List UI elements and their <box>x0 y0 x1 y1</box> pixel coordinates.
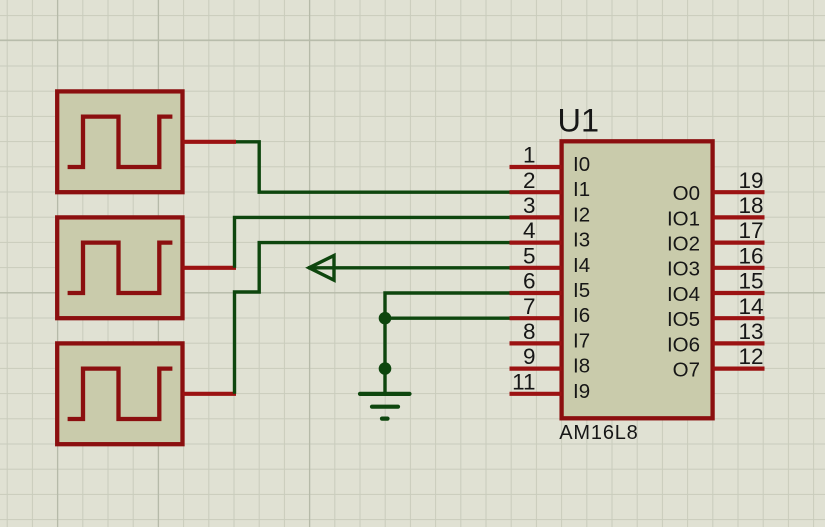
svg-text:18: 18 <box>738 193 763 218</box>
svg-text:O7: O7 <box>673 359 700 382</box>
svg-text:2: 2 <box>523 168 536 193</box>
pin 6 (I5) <box>510 269 591 302</box>
svg-text:7: 7 <box>523 294 536 319</box>
pin 4 (I3) <box>510 218 591 251</box>
svg-text:8: 8 <box>523 319 536 344</box>
wire ground net to pin I5 <box>385 293 510 394</box>
svg-text:AM16L8: AM16L8 <box>559 422 638 444</box>
svg-text:U1: U1 <box>558 103 600 139</box>
pin 15 (IO4) <box>667 269 765 306</box>
svg-text:I9: I9 <box>573 380 590 403</box>
svg-text:16: 16 <box>738 243 763 268</box>
svg-text:14: 14 <box>738 294 763 319</box>
terminal arrow on I4 net <box>309 256 334 281</box>
clock generator V2 (middle pulse source) <box>57 217 182 318</box>
svg-text:IO1: IO1 <box>667 207 700 230</box>
svg-text:O0: O0 <box>673 182 700 205</box>
svg-text:9: 9 <box>523 344 536 369</box>
svg-text:12: 12 <box>738 344 763 369</box>
pin 19 (O0) <box>673 168 765 205</box>
wire V1 to pin I1 <box>236 142 510 192</box>
pin of V2 <box>183 266 237 270</box>
pin 3 (I2) <box>510 193 591 226</box>
pin 12 (O7) <box>673 344 765 381</box>
pin 13 (IO6) <box>667 319 765 356</box>
IC U1 body <box>562 141 713 418</box>
svg-text:IO2: IO2 <box>667 233 700 256</box>
ground symbol <box>360 394 410 419</box>
svg-text:IO6: IO6 <box>667 333 700 356</box>
pin 9 (I8) <box>510 344 591 377</box>
pin 17 (IO2) <box>667 218 765 255</box>
wire V2 to pin I2 <box>235 217 510 267</box>
svg-text:IO5: IO5 <box>667 308 700 331</box>
pin 8 (I7) <box>510 319 591 352</box>
svg-text:I6: I6 <box>573 304 590 327</box>
svg-text:1: 1 <box>523 143 536 168</box>
svg-text:11: 11 <box>512 369 535 394</box>
junction dot at ground terminal <box>379 362 392 375</box>
pin 14 (IO5) <box>667 294 765 331</box>
pin of V3 <box>183 392 237 396</box>
pin 11 (I9) <box>510 369 591 402</box>
junction dot at I6 branch <box>379 312 392 325</box>
svg-text:I5: I5 <box>573 279 590 302</box>
svg-text:4: 4 <box>523 218 536 243</box>
svg-text:15: 15 <box>738 269 763 294</box>
wire V3 to pin I3 <box>235 243 510 394</box>
svg-text:I1: I1 <box>573 178 590 201</box>
svg-text:I4: I4 <box>573 254 590 277</box>
pin 1 (I0) <box>510 143 591 176</box>
wire arrow terminal to pin I4 <box>308 266 510 269</box>
clock generator V3 (bottom pulse source) <box>57 343 182 444</box>
svg-text:3: 3 <box>523 193 536 218</box>
pin 7 (I6) <box>510 294 591 327</box>
svg-text:I2: I2 <box>573 203 590 226</box>
svg-text:13: 13 <box>738 319 763 344</box>
wire ground net to pin I6 <box>385 317 510 320</box>
svg-text:I0: I0 <box>573 153 590 176</box>
svg-text:17: 17 <box>738 218 763 243</box>
svg-text:I3: I3 <box>573 229 590 252</box>
pin 2 (I1) <box>510 168 591 201</box>
clock generator V1 (top pulse source) <box>57 91 182 192</box>
svg-text:I8: I8 <box>573 355 590 378</box>
svg-text:IO3: IO3 <box>667 258 700 281</box>
pin of V1 <box>183 140 237 144</box>
svg-text:I7: I7 <box>573 329 590 352</box>
pin 16 (IO3) <box>667 243 765 280</box>
svg-text:5: 5 <box>523 243 536 268</box>
svg-text:19: 19 <box>738 168 763 193</box>
pin 18 (IO1) <box>667 193 765 230</box>
svg-text:IO4: IO4 <box>667 283 700 306</box>
pin 5 (I4) <box>510 243 591 276</box>
svg-text:6: 6 <box>523 269 536 294</box>
